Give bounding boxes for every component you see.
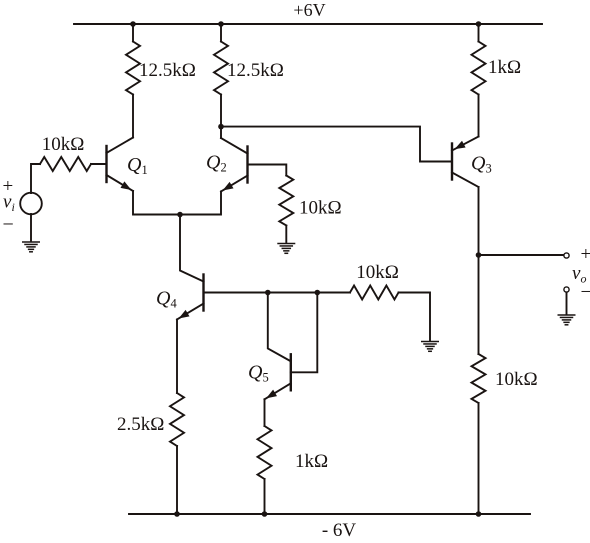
node junction bottom rail / R8 <box>262 511 268 517</box>
ground R4 <box>422 341 439 343</box>
node output junction <box>476 252 482 258</box>
wire Q5 collector to node <box>268 293 291 362</box>
wire Q5 base to node <box>291 293 318 373</box>
svg-text:+6V: +6V <box>293 0 325 20</box>
wire R1 to Q1 collector <box>132 95 134 138</box>
resistor R8 1k <box>258 426 272 479</box>
node junction bottom rail / R6 <box>476 511 482 517</box>
wire node B to Q2 collector <box>220 127 222 138</box>
svg-text:10kΩ: 10kΩ <box>495 369 538 390</box>
source vi circle <box>20 193 42 215</box>
wire tail to Q4 collector <box>180 215 204 282</box>
wire Q2 emitter to tail <box>180 192 221 215</box>
ground output reference <box>558 314 575 316</box>
transistor Q4 <box>177 275 204 320</box>
wire +6V top rail <box>74 23 542 25</box>
svg-text:1kΩ: 1kΩ <box>295 451 328 472</box>
resistor R2 12.5k <box>214 42 228 95</box>
node junction top rail / R5 <box>476 21 482 27</box>
svg-text:- 6V: - 6V <box>322 520 357 541</box>
wire R4 to ground <box>399 293 431 341</box>
node junction top rail / R1 <box>130 21 136 27</box>
wire source to ground <box>30 214 32 241</box>
wire Q4 emitter to R7 <box>176 320 178 394</box>
ground input source <box>23 241 40 243</box>
node junction top rail / R2 <box>218 21 224 27</box>
wire R2 to node B <box>220 95 222 127</box>
node junction Q4 base / Q5 collector <box>265 290 271 296</box>
svg-text:12.5kΩ: 12.5kΩ <box>139 60 196 81</box>
svg-text:−: − <box>3 214 14 236</box>
wire +6V to R1 <box>132 24 134 42</box>
node tail junction Q1/Q2 emitters <box>177 212 183 218</box>
wire Q3 collector to output node <box>478 187 480 255</box>
wire output node to R6 <box>478 255 480 354</box>
svg-text:Q4: Q4 <box>156 288 177 311</box>
wire R8 to -6V <box>264 479 266 514</box>
wire R5 to Q3 emitter <box>478 95 480 137</box>
wire Q2 base to R3 <box>248 165 287 176</box>
wire node B to Q3 base <box>221 127 452 162</box>
resistor R5 1k <box>472 42 486 95</box>
transistor Q5 <box>265 354 291 399</box>
wire -6V bottom rail <box>129 513 530 515</box>
wire Rs to Q1 base <box>91 163 107 165</box>
terminal vo - <box>564 287 569 292</box>
wire +6V to R5 <box>478 24 480 42</box>
wire +6V to R2 <box>220 24 222 42</box>
wire R7 to -6V <box>176 446 178 514</box>
resistor Rs 10k <box>40 157 91 171</box>
svg-text:2.5kΩ: 2.5kΩ <box>117 414 164 435</box>
transistor Q1 <box>107 138 134 192</box>
node B junction Q2 collector / Q3 base <box>218 124 224 130</box>
resistor R4 10k <box>350 286 399 300</box>
svg-text:12.5kΩ: 12.5kΩ <box>227 60 284 81</box>
transistor Q2 <box>221 138 248 192</box>
svg-text:Q3: Q3 <box>471 153 492 176</box>
resistor R1 12.5k <box>126 42 140 95</box>
svg-text:−: − <box>581 281 590 303</box>
terminal vo + <box>564 253 569 258</box>
svg-text:10kΩ: 10kΩ <box>42 134 85 155</box>
node junction Q4 base / Q5 base <box>315 290 321 296</box>
wire R6 to -6V <box>478 403 480 514</box>
resistor R3 10k <box>279 176 293 226</box>
svg-text:Q1: Q1 <box>127 154 148 177</box>
wire Q5 emitter to R8 <box>264 399 266 426</box>
svg-text:10kΩ: 10kΩ <box>299 198 342 219</box>
svg-text:+: + <box>581 244 590 265</box>
svg-text:10kΩ: 10kΩ <box>356 262 399 283</box>
wire Q1 emitter to tail <box>133 191 180 215</box>
wire source to Rs <box>31 164 40 193</box>
svg-text:Q5: Q5 <box>248 362 269 385</box>
resistor R6 10k <box>472 354 486 403</box>
wire output node to terminal <box>479 254 565 256</box>
svg-text:Q2: Q2 <box>206 152 227 175</box>
wire Q4 base line <box>204 292 351 294</box>
wire vo- terminal to ground <box>566 293 568 315</box>
transistor Q3 <box>452 137 479 188</box>
ground Q2 base resistor <box>278 243 295 245</box>
resistor R7 2.5k <box>170 393 184 446</box>
node junction bottom rail / R7 <box>174 511 180 517</box>
wire R3 to ground <box>285 226 287 243</box>
svg-text:1kΩ: 1kΩ <box>488 57 521 78</box>
